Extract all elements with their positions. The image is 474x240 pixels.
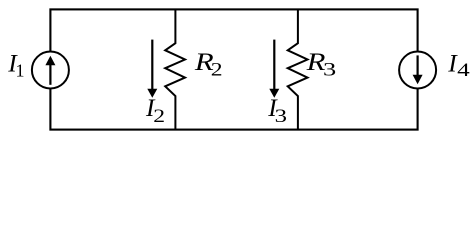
svg-text:3: 3 bbox=[275, 106, 287, 127]
svg-text:2: 2 bbox=[153, 106, 165, 127]
svg-text:1: 1 bbox=[16, 60, 25, 80]
svg-text:2: 2 bbox=[211, 60, 223, 81]
svg-text:4: 4 bbox=[457, 60, 470, 81]
svg-text:3: 3 bbox=[323, 60, 336, 81]
